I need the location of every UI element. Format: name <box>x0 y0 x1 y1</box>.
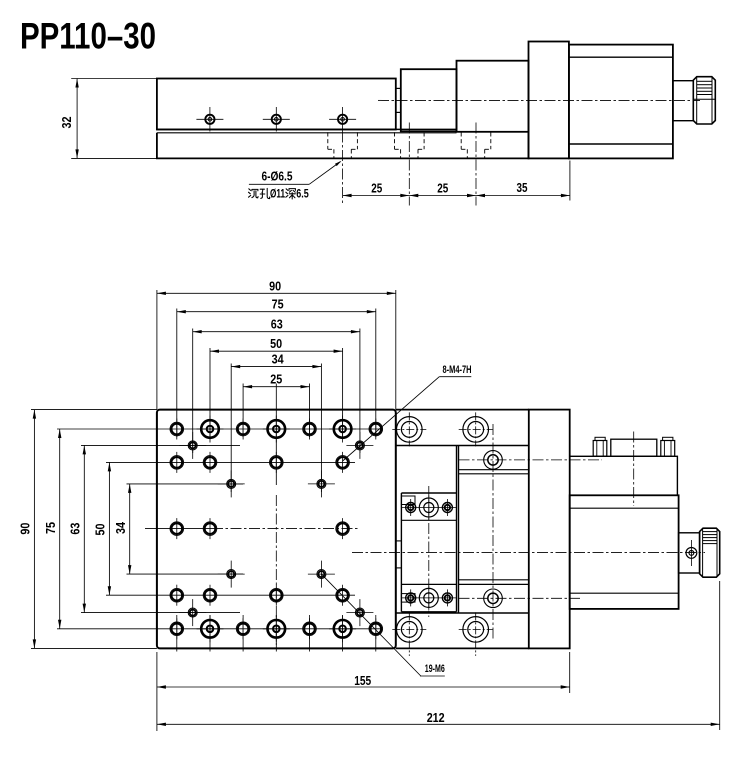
side view shaft <box>673 81 693 121</box>
side view hidden counterbore 3 <box>460 132 462 149</box>
plan M4 hole 6 <box>317 570 326 579</box>
base extension outline <box>396 409 529 411</box>
guide block hole bottom <box>484 589 503 608</box>
side view hidden counterbore 1 <box>327 132 329 149</box>
callout text chinese counterbore note <box>249 188 296 199</box>
row line D <box>106 594 355 596</box>
ext line x=176.8 <box>176 309 178 438</box>
dim 155 extension right <box>569 652 571 693</box>
plan setscrew <box>686 548 697 559</box>
svg-text:6.5: 6.5 <box>296 189 309 201</box>
svg-text:212: 212 <box>427 710 445 725</box>
side view hole circle 2 <box>272 115 281 124</box>
plan M6 hole 2 <box>236 422 250 436</box>
plan M6 hole 1 <box>170 422 184 436</box>
side view knob outline <box>693 77 715 124</box>
dim 32 extension lines <box>71 78 157 80</box>
dim left 50 <box>108 462 110 595</box>
side view table/base split line lower <box>157 132 457 134</box>
svg-text:50: 50 <box>270 336 282 351</box>
extension counterbore 2 <box>463 417 489 443</box>
svg-text:90: 90 <box>269 278 281 293</box>
plan M6 hole 8 <box>336 456 350 470</box>
dim left 75 <box>59 429 61 629</box>
plan M4 hole 2 <box>355 441 364 450</box>
svg-text:63: 63 <box>67 523 82 535</box>
plan M6 hole 15 <box>336 588 350 602</box>
plan M4 hole 7 <box>188 608 197 617</box>
side view leadscrew stub lines <box>396 87 401 89</box>
dim left 34 <box>129 484 131 574</box>
svg-text:34: 34 <box>272 352 285 367</box>
side view axis centerline <box>378 99 700 101</box>
svg-text:25: 25 <box>371 181 382 195</box>
carriage centerline <box>428 486 430 617</box>
svg-text:155: 155 <box>354 673 371 688</box>
extension counterbore 4 <box>463 617 489 643</box>
svg-text:35: 35 <box>517 181 528 195</box>
row line B <box>106 461 355 463</box>
plan view main plate outline <box>157 410 396 649</box>
carriage step line <box>401 492 456 494</box>
carriage upper right edge <box>456 446 458 612</box>
svg-text:50: 50 <box>93 524 108 536</box>
dim 32 line <box>76 79 78 159</box>
svg-text:63: 63 <box>271 317 283 332</box>
plan counterbore hole 1 <box>201 420 219 438</box>
plan M6 hole 9 <box>170 522 184 536</box>
svg-text:34: 34 <box>113 521 128 534</box>
side view table/base split line upper <box>157 128 457 130</box>
ext line x=395.8 <box>395 290 397 410</box>
plan motor flange <box>529 410 570 649</box>
bottom row stubs <box>176 615 178 652</box>
connector body <box>611 439 657 456</box>
plan M6 hole 7 <box>270 456 284 470</box>
guide block horizontal centerline bottom <box>459 597 581 599</box>
guide block double line bottom <box>459 579 529 581</box>
side view hidden counterbore 2 <box>394 132 396 149</box>
row line 63 bottom <box>81 612 240 614</box>
dim chain line <box>343 195 570 197</box>
plan counterbore hole 2 <box>268 420 286 438</box>
plan M4 hole 5 <box>227 570 236 579</box>
row line F <box>57 628 382 630</box>
side view stage table outline <box>157 79 396 130</box>
carriage left edge <box>400 493 402 612</box>
plan M6 hole 4 <box>369 422 383 436</box>
side view gearbox block 1 <box>401 69 457 131</box>
side view knob knurl lines <box>697 80 712 82</box>
ext line x=192.7 <box>192 329 194 454</box>
plan motor encoder block <box>570 456 678 495</box>
plan M6 hole 19 <box>369 622 383 636</box>
svg-text:75: 75 <box>43 522 58 534</box>
plan knob knurl lines <box>703 531 717 533</box>
carriage bottom line <box>401 611 456 613</box>
svg-text:19-M6: 19-M6 <box>425 663 445 675</box>
connector jack screw right <box>661 441 675 457</box>
plan M6 hole 10 <box>203 522 217 536</box>
plan M4 hole 3 <box>227 479 236 488</box>
plan M6 hole 14 <box>270 588 284 602</box>
svg-text:Ø11: Ø11 <box>270 189 285 201</box>
plan M6 hole 18 <box>303 622 317 636</box>
svg-text:8-M4-7H: 8-M4-7H <box>443 364 472 376</box>
plan counterbore hole 4 <box>201 620 219 638</box>
plan motor body <box>570 495 679 609</box>
svg-text:32: 32 <box>59 117 74 129</box>
ext line x=321.4 <box>320 364 322 493</box>
ext line x=231.2 <box>230 364 232 493</box>
carriage slot top <box>401 496 415 505</box>
dim 212 extension right <box>719 581 721 730</box>
connector centerline <box>633 432 635 507</box>
connector jack screw left <box>593 441 607 457</box>
plan counterbore hole 5 <box>268 620 286 638</box>
carriage band line bottom <box>401 583 456 585</box>
svg-text:75: 75 <box>272 297 284 312</box>
dim 35 right extension line <box>569 161 571 201</box>
extension strip line top <box>396 445 529 447</box>
dim 212 <box>157 723 720 725</box>
dim 155 <box>157 686 570 688</box>
plan knob outline <box>700 528 720 577</box>
dim top 75 <box>177 311 376 313</box>
ext line x=210 <box>209 348 211 437</box>
row line 34 bottom <box>127 573 244 575</box>
plan M6 hole 3 <box>303 422 317 436</box>
svg-text:6-Ø6.5: 6-Ø6.5 <box>262 169 293 183</box>
dim top 25 <box>243 386 309 388</box>
ext line x=309.5 <box>309 384 311 438</box>
plan M4 hole 4 <box>317 479 326 488</box>
dim top 50 <box>210 350 343 352</box>
extension counterbore 3 <box>397 617 423 643</box>
side view motor end-cap line top <box>569 56 673 58</box>
plan M6 hole 11 <box>336 522 350 536</box>
side view motor body <box>569 45 673 159</box>
side view motor flange <box>529 42 569 159</box>
plan M4 hole 8 <box>355 608 364 617</box>
row line plate bottom <box>31 647 157 649</box>
dim top 63 <box>193 331 360 333</box>
svg-text:PP110–30: PP110–30 <box>20 16 156 57</box>
side view base outline <box>157 133 529 159</box>
center col line <box>275 384 277 486</box>
plan M6 hole 12 <box>170 588 184 602</box>
dim top 90 <box>157 292 396 294</box>
svg-text:90: 90 <box>18 523 33 535</box>
ext line x=156.9 <box>156 290 158 410</box>
ext line x=342.6 <box>342 348 344 437</box>
plan M6 hole 6 <box>203 456 217 470</box>
carriage screw cluster top <box>402 507 456 509</box>
dim left 63 <box>83 445 85 612</box>
plan knob inner line left <box>702 528 704 577</box>
ext line x=243.1 <box>242 384 244 438</box>
plan knob inner line right <box>716 528 718 577</box>
row line 63 top <box>81 444 240 446</box>
plan M6 hole 5 <box>170 456 184 470</box>
guide block left edge <box>458 446 460 614</box>
row line A <box>57 428 382 430</box>
row line center <box>145 528 212 530</box>
leadscrew stub <box>396 540 402 542</box>
guide block double line top <box>459 469 529 471</box>
dim chain arrows <box>343 194 352 197</box>
plan M6 hole 13 <box>203 588 217 602</box>
side view gearbox block 2 <box>457 61 529 132</box>
plan motor can line bottom <box>570 592 679 594</box>
side view motor end-cap line bottom <box>569 143 673 145</box>
callout leader line <box>249 183 309 185</box>
extension strip line bottom <box>396 612 529 614</box>
plan M6 hole 16 <box>170 622 184 636</box>
plan counterbore hole 6 <box>334 620 352 638</box>
carriage screw cluster bottom <box>402 597 456 599</box>
guide block vertical centerline <box>492 424 494 640</box>
plan M6 hole 17 <box>236 622 250 636</box>
plan shaft <box>679 533 700 573</box>
guide block horizontal centerline top <box>459 459 603 461</box>
side view knob inner line left <box>696 77 698 124</box>
dim top 34 <box>231 366 321 368</box>
row line plate top <box>31 409 157 411</box>
dim left 90 <box>33 410 35 649</box>
ext line x=359.9 <box>359 329 361 454</box>
row line 34 top <box>127 483 244 485</box>
side view knob inner line right <box>711 77 713 124</box>
plan axis centerline <box>352 551 705 553</box>
plan M4 hole 1 <box>188 441 197 450</box>
plan motor can line top <box>570 507 679 509</box>
plan counterbore hole 3 <box>334 420 352 438</box>
extension counterbore 1 <box>397 417 423 443</box>
dim 155 extension left <box>156 652 158 731</box>
carriage band line top <box>401 519 456 521</box>
side view hole circle 1 <box>205 115 214 124</box>
guide block hole top <box>484 451 503 470</box>
svg-text:25: 25 <box>437 181 448 195</box>
side view hole circle 3 <box>338 115 347 124</box>
carriage slot bottom <box>401 594 415 603</box>
ext line x=375.8 <box>375 309 377 438</box>
